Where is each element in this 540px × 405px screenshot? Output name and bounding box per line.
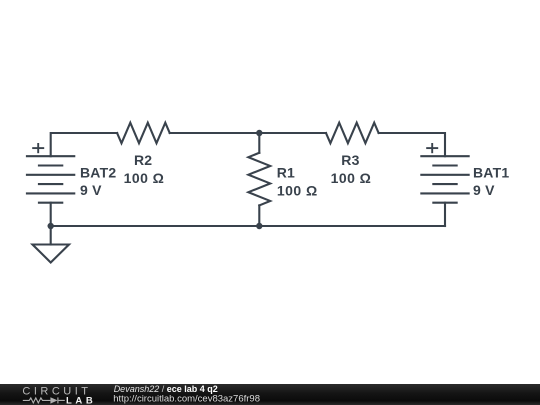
node A junction dot xyxy=(256,130,262,136)
wire BAT2 bottom xyxy=(50,203,52,226)
wire R2 to node A xyxy=(170,132,260,134)
svg-text:http://circuitlab.com/cev83az7: http://circuitlab.com/cev83az76fr98 xyxy=(113,393,260,404)
svg-text:LAB: LAB xyxy=(66,396,96,405)
wire BAT1 bottom xyxy=(444,203,446,226)
ground node junction dot xyxy=(48,223,54,229)
CircuitLab logo resistor-diode line xyxy=(23,397,65,403)
footer bar xyxy=(0,384,540,405)
wire node A down to R1 xyxy=(258,133,260,153)
resistor R2 xyxy=(117,123,170,144)
wire R1 to bottom node B xyxy=(258,205,260,226)
wire bottom net xyxy=(51,225,445,227)
wire R3 to BAT1 xyxy=(379,133,445,156)
resistor R1 xyxy=(248,153,270,206)
wire top left from BAT2 to R2 xyxy=(51,133,117,156)
BAT2 plus sign xyxy=(32,143,44,153)
BAT1 plus sign xyxy=(426,143,438,153)
node B junction dot xyxy=(256,223,262,229)
battery BAT2 xyxy=(26,156,75,203)
ground xyxy=(33,245,70,263)
wire to ground xyxy=(50,226,52,245)
CircuitLab logo diode triangle xyxy=(50,397,57,403)
wire node A to R3 xyxy=(259,132,326,134)
resistor R3 xyxy=(326,123,379,144)
battery BAT1 xyxy=(420,156,469,203)
